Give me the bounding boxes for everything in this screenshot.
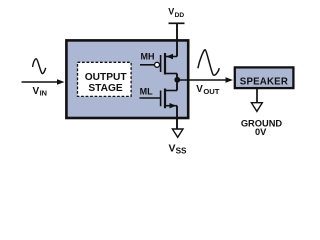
svg-text:OUTPUT: OUTPUT [85, 72, 128, 83]
svg-text:V: V [196, 84, 203, 95]
svg-text:0V: 0V [255, 127, 267, 137]
svg-text:V: V [33, 86, 40, 97]
svg-text:ML: ML [140, 86, 153, 96]
svg-text:OUT: OUT [203, 87, 219, 96]
svg-text:STAGE: STAGE [88, 83, 123, 94]
svg-text:SPEAKER: SPEAKER [240, 76, 288, 87]
svg-text:SS: SS [176, 146, 187, 155]
svg-text:V: V [169, 142, 176, 154]
svg-text:MH: MH [141, 51, 155, 61]
svg-text:DD: DD [175, 12, 185, 19]
svg-text:IN: IN [40, 89, 47, 98]
svg-text:V: V [168, 7, 174, 17]
